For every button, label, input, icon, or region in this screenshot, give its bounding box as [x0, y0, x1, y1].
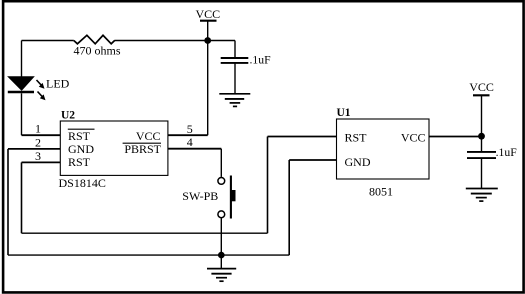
- svg-text:VCC: VCC: [401, 130, 426, 144]
- wire: RST rail vertical up to U1: [267, 137, 269, 234]
- wire: switch bottom terminal to ground rail: [220, 218, 222, 255]
- wire: U2 pin3 stub: [22, 161, 61, 163]
- wire: U2 pin2 vertical down to ground rail: [7, 149, 9, 255]
- svg-text:3: 3: [35, 149, 41, 163]
- node: junction of VCC rail and C1 branch: [204, 37, 211, 44]
- wire: bottom ground rail: [8, 254, 289, 256]
- wire: C2 to ground: [481, 158, 483, 188]
- svg-text:1: 1: [35, 122, 41, 136]
- wire: U2 pin2 stub: [8, 148, 60, 150]
- capacitor C2 .1uF: [467, 146, 517, 159]
- wire: top-left vertical (corner to LED anode): [21, 41, 23, 77]
- svg-text:RST: RST: [68, 155, 91, 169]
- node: ground rail junction: [218, 252, 225, 259]
- wire: GND rail vertical up to U1: [288, 160, 290, 255]
- wire: U1 VCC stub: [429, 136, 482, 138]
- wire: VCC vertical down to U2 pin5: [207, 21, 209, 136]
- LED D1: [8, 77, 70, 101]
- power VCC (top center): [195, 7, 220, 21]
- svg-text:VCC: VCC: [195, 7, 220, 21]
- svg-text:.1uF: .1uF: [250, 54, 272, 67]
- wire: U2 pin5 stub to VCC vertical: [168, 134, 208, 136]
- svg-text:RST: RST: [68, 129, 91, 143]
- svg-text:470 ohms: 470 ohms: [73, 44, 120, 58]
- svg-text:2: 2: [35, 135, 41, 149]
- wire: U2 pin4 stub: [168, 148, 221, 150]
- wire: branch down to C1: [234, 41, 236, 58]
- svg-text:PBRST: PBRST: [124, 142, 161, 156]
- ground (below C1): [219, 94, 250, 107]
- svg-text:4: 4: [187, 135, 193, 149]
- ground (below C2): [466, 189, 498, 202]
- svg-text:LED: LED: [46, 77, 70, 91]
- svg-text:U2: U2: [61, 110, 75, 122]
- wire: RST rail horizontal: [22, 232, 268, 234]
- wire: U1 GND stub: [289, 159, 336, 161]
- svg-text:GND: GND: [345, 155, 371, 169]
- node: junction at U1 VCC: [478, 133, 485, 140]
- svg-text:GND: GND: [68, 142, 94, 156]
- wire: pin4 vertical down to switch: [220, 149, 222, 177]
- pin label PBRST (U2 pin4, active low): [123, 142, 162, 156]
- svg-text:VCC: VCC: [136, 129, 161, 143]
- wire: U2 pin1 stub: [22, 134, 61, 136]
- svg-text:.1uF: .1uF: [496, 146, 518, 159]
- capacitor C1 .1uF: [221, 54, 271, 67]
- IC U1 8051 body: [337, 107, 430, 199]
- wire: junction to ground symbol: [220, 255, 222, 268]
- svg-text:RST: RST: [345, 130, 368, 144]
- svg-text:DS1814C: DS1814C: [59, 176, 106, 190]
- svg-text:U1: U1: [337, 107, 351, 119]
- wire: U1 RST stub: [268, 136, 337, 138]
- svg-text:VCC: VCC: [469, 80, 494, 94]
- pin label RST (U2 pin1, active low): [68, 129, 95, 143]
- resistor R1 470 ohms: [73, 35, 120, 57]
- IC U2 DS1814C body: [59, 110, 168, 191]
- svg-text:8051: 8051: [369, 185, 393, 199]
- wire: LED cathode down to U2 pin1: [21, 93, 23, 135]
- svg-text:SW-PB: SW-PB: [182, 189, 218, 203]
- switch SW1 SW-PB: [182, 176, 235, 219]
- wire: U2 pin3 vertical down to RST rail: [21, 162, 23, 233]
- ground (bottom center): [207, 269, 236, 282]
- wire: top horizontal right segment to cap branch: [115, 40, 235, 42]
- wire: top horizontal left segment: [22, 40, 74, 42]
- power VCC (right): [469, 80, 494, 136]
- wire: junction down to C2: [481, 136, 483, 152]
- wire: C1 to ground: [234, 63, 236, 94]
